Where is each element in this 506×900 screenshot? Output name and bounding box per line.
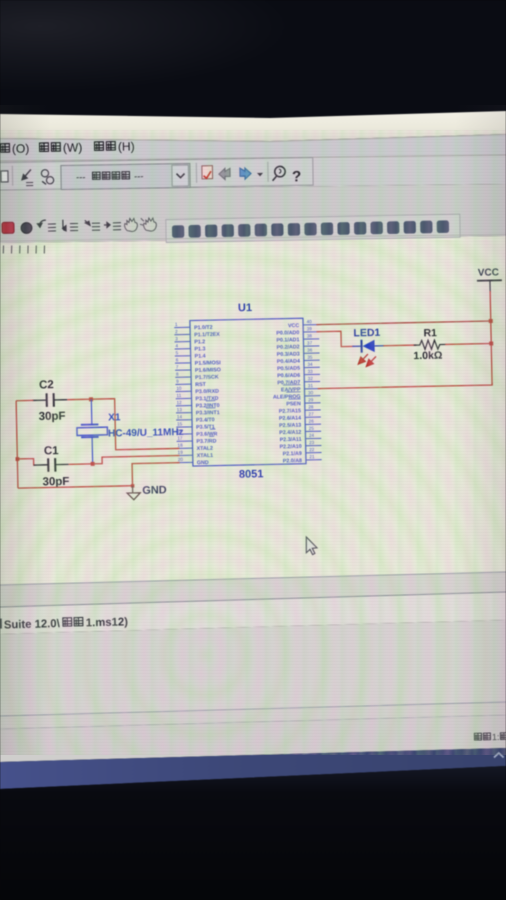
U1 pin 15 (P3.5/T1)	[176, 421, 215, 431]
separator	[195, 163, 197, 183]
U1 pin 26 (P2.5/A13)	[279, 419, 321, 429]
junction at VCC rail / pin40 wire	[489, 319, 493, 323]
toolbar row 1 band	[0, 155, 506, 190]
canvas bottom divider line	[0, 572, 506, 585]
hand icon 2	[140, 218, 157, 231]
svg-text:21: 21	[309, 454, 315, 459]
svg-text:33: 33	[308, 369, 314, 374]
svg-text:31: 31	[308, 383, 314, 388]
lower divider line	[0, 702, 506, 716]
svg-text:P1.1/T2EX: P1.1/T2EX	[194, 332, 220, 339]
svg-text:26: 26	[309, 419, 315, 424]
svg-text:GND: GND	[197, 460, 209, 466]
svg-text:HC-49/U_11MHz: HC-49/U_11MHz	[108, 427, 184, 440]
svg-text:20: 20	[178, 457, 184, 462]
svg-text:P0.4/AD4: P0.4/AD4	[277, 359, 300, 365]
U1 pin 30 (ALE/PROG)	[273, 390, 321, 401]
lower gray band	[0, 620, 506, 716]
dark circle button	[21, 222, 32, 233]
svg-text:P2.6/A14: P2.6/A14	[279, 415, 301, 421]
menu bar texts	[0, 139, 134, 156]
svg-text:15: 15	[177, 421, 183, 426]
junction: ground node	[131, 484, 134, 487]
svg-text:P2.1/A9: P2.1/A9	[283, 451, 302, 457]
resistor R1	[414, 340, 446, 350]
U1 pin 7 (P1.6/MISO)	[175, 364, 221, 375]
wire: U1 pin31 EA to VCC rail	[318, 383, 493, 389]
icon: find	[272, 166, 285, 180]
svg-text:27: 27	[308, 412, 314, 417]
svg-text:C1: C1	[44, 445, 60, 457]
crystal X1	[76, 399, 108, 464]
U1 pin 27 (P2.6/A14)	[279, 411, 321, 421]
U1 pin 35 (P0.4/AD4)	[277, 355, 320, 365]
U1 pin 23 (P2.2/A10)	[279, 440, 321, 450]
screen bezel highlight band	[0, 111, 506, 141]
U1 pin 11 (P3.1/TXD)	[176, 392, 219, 402]
U1 pin 20 (GND)	[177, 456, 209, 466]
icon: back annotate	[219, 168, 230, 179]
red stop square	[2, 222, 14, 233]
taskbar chevron	[494, 753, 504, 758]
U1 pin 24 (P2.3/A11)	[280, 433, 322, 443]
band above taskbar	[0, 715, 506, 762]
junction: crystal bottom node	[91, 462, 95, 466]
wire: LED anode lead	[352, 345, 361, 347]
svg-text:P3.2/INT0: P3.2/INT0	[196, 403, 220, 409]
bezel/menu divider line	[0, 135, 506, 142]
svg-text:---: ---	[134, 171, 144, 182]
svg-text:38: 38	[307, 333, 313, 338]
in-use-list dropdown	[61, 164, 190, 190]
svg-text:P0.1/AD1: P0.1/AD1	[276, 337, 299, 343]
svg-text:P1.0/T2: P1.0/T2	[194, 325, 213, 331]
U1 pin 39 (P0.0/AD0)	[276, 326, 319, 336]
schematic canvas	[0, 236, 506, 585]
svg-text:PSEN: PSEN	[286, 401, 301, 407]
U1 pin 17 (P3.7/RD)	[177, 435, 217, 445]
svg-text:VCC: VCC	[478, 267, 499, 278]
wire: bottom rail to ground node	[18, 486, 133, 488]
U1 pin 36 (P0.3/AD3)	[277, 347, 320, 357]
U1 pin 12 (P3.2/INT0)	[176, 399, 220, 410]
VCC power symbol	[477, 267, 503, 292]
U1 pin 22 (P2.1/A9)	[283, 447, 322, 457]
svg-text:U1: U1	[238, 302, 252, 314]
svg-text:XTAL1: XTAL1	[197, 453, 214, 459]
step icon 4	[104, 222, 121, 230]
svg-text:RST: RST	[195, 382, 206, 388]
icon: forward annotate	[240, 168, 251, 179]
svg-text:30: 30	[308, 390, 314, 395]
svg-text:P1.5/MOSI: P1.5/MOSI	[195, 360, 222, 367]
U1 pin 14 (P3.4/T0)	[176, 414, 215, 424]
U1 pin 33 (P0.6/AD6)	[277, 369, 320, 379]
svg-text:LED1: LED1	[353, 327, 380, 340]
svg-text:R1: R1	[423, 327, 437, 339]
U1 pin 31 (EA/VPP)	[281, 383, 320, 393]
svg-text:P1.3: P1.3	[194, 346, 205, 352]
svg-text:18: 18	[177, 443, 183, 448]
wire: U1 pin39 to LED (jog)	[316, 331, 354, 347]
LED LED1 symbol	[361, 339, 384, 352]
ruler tick marks at canvas top-left	[3, 246, 44, 254]
partial icon at left edge	[1, 171, 8, 182]
U1 pin 32 (P0.7/AD7)	[277, 376, 320, 386]
toolbar 2 left icons	[2, 218, 157, 234]
active-low overlines on pin labels	[206, 385, 302, 437]
svg-text:XTAL2: XTAL2	[197, 446, 214, 452]
step icon 1	[37, 220, 56, 231]
U1 pin 16 (P3.6/WR)	[176, 428, 217, 438]
ground symbol	[127, 486, 140, 500]
wire: U1 pin40 VCC to rail	[316, 321, 490, 325]
U1 pin 40 (VCC)	[288, 319, 319, 329]
svg-text:28: 28	[308, 404, 314, 409]
bottom-right sheet tab text	[474, 732, 506, 743]
svg-text:14: 14	[177, 414, 183, 419]
svg-text:P3.0/RXD: P3.0/RXD	[195, 389, 219, 395]
svg-text:P3.7/RD: P3.7/RD	[196, 439, 216, 445]
U1 pin 37 (P0.2/AD2)	[276, 340, 319, 350]
status bar text	[0, 615, 128, 631]
icon: ERC sheet with red mark	[202, 166, 213, 179]
svg-text:19: 19	[178, 450, 184, 455]
U1 pin 3 (P1.2)	[174, 336, 205, 346]
svg-text:29: 29	[308, 397, 314, 402]
step icon 2	[62, 220, 78, 231]
svg-text:P2.2/A10: P2.2/A10	[280, 444, 302, 450]
wire: left rail to C2	[16, 399, 33, 401]
svg-text:32: 32	[308, 376, 314, 381]
capacitor C2	[32, 393, 67, 407]
toolbar bottom double line	[0, 235, 506, 242]
svg-text:P3.6/WR: P3.6/WR	[196, 431, 217, 437]
wire: left vertical rail	[16, 401, 18, 488]
svg-text:P0.0/AD0: P0.0/AD0	[276, 330, 299, 336]
U1 pin 6 (P1.5/MOSI)	[175, 357, 221, 368]
U1 pin 10 (P3.0/RXD)	[175, 385, 219, 396]
svg-text:12: 12	[177, 400, 183, 405]
svg-text:25: 25	[309, 426, 315, 431]
mouse cursor	[306, 537, 317, 555]
svg-text:VCC: VCC	[288, 323, 299, 329]
svg-text:P2.0/A8: P2.0/A8	[283, 458, 302, 464]
wire: rail stub to C1	[17, 459, 34, 466]
svg-text:P1.4: P1.4	[195, 353, 206, 359]
U1 pin 2 (P1.1/T2EX)	[174, 328, 220, 339]
svg-text:(W): (W)	[63, 140, 83, 154]
separator	[11, 166, 13, 186]
toolbar 1	[0, 158, 313, 191]
menu/toolbar divider line	[0, 155, 506, 161]
svg-text:P0.6/AD6: P0.6/AD6	[277, 373, 300, 379]
svg-text:P0.5/AD5: P0.5/AD5	[277, 366, 300, 372]
svg-text:40: 40	[306, 319, 312, 324]
wire: VCC rail vertical	[490, 291, 492, 385]
svg-text:1:: 1:	[492, 732, 500, 742]
U1 pin 5 (P1.4)	[175, 350, 206, 360]
svg-text:P0.2/AD2: P0.2/AD2	[277, 344, 300, 350]
U1 pin 34 (P0.5/AD5)	[277, 362, 320, 372]
svg-text:23: 23	[309, 440, 315, 445]
svg-text:ALE/PROG: ALE/PROG	[273, 394, 301, 401]
svg-text:13: 13	[177, 407, 183, 412]
U1 pin 1 (P1.0/T2)	[174, 321, 213, 331]
junction: rail / C1 stub	[16, 457, 20, 461]
status bar band	[0, 592, 506, 634]
wire: LED cathode to R1	[383, 344, 416, 347]
svg-text:Suite 12.0\: Suite 12.0\	[4, 618, 61, 631]
svg-text:P1.7/SCK: P1.7/SCK	[195, 374, 219, 380]
junction at VCC rail / LED-R1 wire	[489, 341, 493, 345]
svg-text:24: 24	[309, 433, 315, 438]
svg-text:30pF: 30pF	[39, 410, 66, 423]
svg-text:P1.6/MISO: P1.6/MISO	[195, 367, 221, 374]
svg-text:X1: X1	[108, 412, 121, 423]
svg-text:P2.5/A13: P2.5/A13	[279, 423, 301, 429]
svg-text:P0.7/AD7: P0.7/AD7	[277, 380, 300, 386]
svg-text:EA/VPP: EA/VPP	[281, 387, 301, 393]
taskbar band	[0, 748, 506, 789]
capacitor C1	[34, 458, 69, 472]
svg-text:10: 10	[176, 386, 182, 391]
LED1 emission arrows	[358, 354, 376, 367]
svg-text:(O): (O)	[12, 141, 30, 155]
wire: C2 to crystal-top node and on to XTAL2	[67, 397, 179, 450]
svg-text:P3.3/INT1: P3.3/INT1	[196, 410, 220, 416]
svg-text:1.0kΩ: 1.0kΩ	[413, 350, 442, 363]
U1 pin 38 (P0.1/AD1)	[276, 333, 319, 343]
op-amp-style DIP body: microcontroller U1 8051	[190, 318, 306, 466]
components toolbar (dark squares)	[166, 214, 460, 242]
svg-text:37: 37	[307, 340, 313, 345]
gap band below canvas	[0, 572, 506, 607]
U1 pin 28 (P2.7/A15)	[279, 404, 321, 414]
second faint line	[0, 715, 506, 729]
menu bar band	[0, 134, 506, 161]
svg-text:---: ---	[76, 172, 86, 183]
icon: replace components	[41, 170, 53, 185]
svg-text:8051: 8051	[239, 468, 264, 481]
svg-text:1.ms12): 1.ms12)	[86, 616, 129, 629]
hand icon 1	[124, 218, 137, 231]
svg-text:P3.5/T1: P3.5/T1	[196, 424, 215, 430]
wire: C1 to crystal-bottom node then up to XTAL1	[69, 456, 180, 465]
svg-text:22: 22	[309, 447, 315, 452]
svg-text:?: ?	[292, 168, 301, 185]
U1 pin 18 (XTAL2)	[177, 442, 213, 452]
svg-text:35: 35	[307, 355, 313, 360]
svg-text:P2.4/A12: P2.4/A12	[279, 430, 301, 436]
toolbar row 2 band	[0, 184, 506, 243]
U1 pin 29 (PSEN)	[286, 397, 320, 407]
U1 pin 13 (P3.3/INT1)	[176, 406, 220, 417]
toolbar1 frame	[0, 158, 313, 190]
junction: crystal top node	[89, 397, 93, 401]
icon: place wire	[22, 169, 33, 185]
svg-text:34: 34	[307, 362, 313, 367]
svg-text:P3.4/T0: P3.4/T0	[196, 417, 215, 423]
svg-text:(H): (H)	[118, 139, 135, 153]
U1 pin 8 (P1.7/SCK)	[175, 371, 219, 382]
svg-text:36: 36	[307, 348, 313, 353]
svg-text:39: 39	[307, 326, 313, 331]
svg-text:P2.7/A15: P2.7/A15	[279, 408, 301, 414]
U1 pin 9 (RST)	[175, 378, 206, 388]
svg-text:P2.3/A11: P2.3/A11	[280, 437, 302, 443]
wire: ground node up to U1 GND pin	[132, 463, 180, 486]
wire: R1 to VCC rail	[445, 342, 491, 345]
svg-text:P0.3/AD3: P0.3/AD3	[277, 351, 300, 357]
band under line	[0, 702, 506, 729]
separator	[267, 162, 269, 182]
U1 pin 19 (XTAL1)	[177, 449, 213, 459]
U1 pin 4 (P1.3)	[175, 343, 206, 353]
svg-text:P3.1/TXD: P3.1/TXD	[195, 396, 218, 402]
laptop body below screen	[0, 766, 506, 900]
svg-text:11: 11	[176, 393, 181, 398]
step icon 3	[85, 220, 100, 230]
U1 pin 25 (P2.4/A12)	[279, 426, 321, 436]
svg-text:P1.2: P1.2	[194, 339, 205, 345]
dark background above the laptop screen	[0, 0, 506, 132]
U1 pin 21 (P2.0/A8)	[283, 454, 322, 464]
svg-text:C2: C2	[39, 379, 54, 391]
svg-text:GND: GND	[142, 484, 167, 497]
status bar top line	[0, 592, 506, 607]
